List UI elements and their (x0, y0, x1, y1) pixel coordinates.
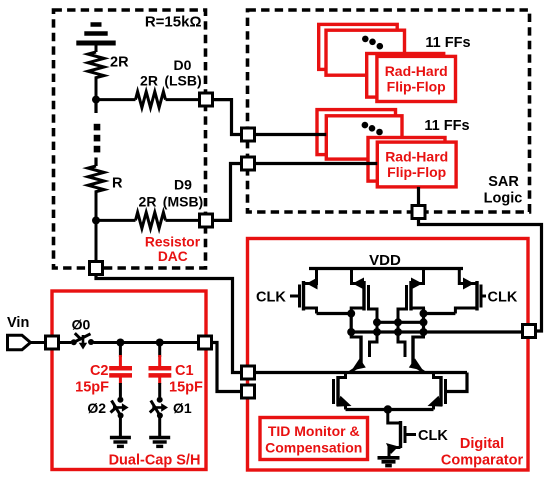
switch phi0 (71, 333, 94, 349)
wire comparator input rail (node A tap) (255, 371, 467, 374)
svg-text:2R: 2R (140, 73, 158, 89)
capacitor C1 (149, 343, 172, 398)
svg-text:Vin: Vin (7, 315, 29, 331)
resistor R (vertical) (88, 166, 104, 194)
svg-text:R: R (112, 176, 123, 192)
transistor P4 (PMOS reset right, CLK) (455, 269, 486, 314)
svg-text:CLK: CLK (418, 428, 448, 444)
node square SAR input 1 (242, 128, 255, 141)
svg-text:(LSB): (LSB) (164, 73, 201, 89)
switch phi2 (111, 397, 129, 419)
svg-text:Digital: Digital (460, 436, 504, 452)
svg-text:2R: 2R (139, 194, 157, 210)
resistor 2R (D0 row horizontal) (136, 92, 166, 108)
wire SAR out square to comparator output square (right loop) (419, 219, 542, 332)
svg-text:11 FFs: 11 FFs (424, 118, 469, 134)
wire phi1 to ground (158, 416, 161, 438)
node dot C1 top (156, 339, 164, 347)
FF stack2 back rect 2 (326, 116, 402, 159)
wire feedback loop to N4 gate (446, 373, 468, 392)
node square D9 (200, 214, 213, 227)
box SAR Logic (dashed) (248, 10, 530, 212)
FF stack1 back rect 2 (326, 30, 405, 75)
svg-text:(MSB): (MSB) (163, 194, 203, 210)
node square SAR output (412, 206, 425, 219)
input pad Vin (pentagon) (8, 335, 31, 350)
svg-text:CLK: CLK (256, 290, 286, 306)
svg-text:DAC: DAC (158, 249, 188, 264)
wire D9 square to SAR input 2 (213, 164, 242, 221)
svg-text:Flip-Flop: Flip-Flop (387, 164, 446, 180)
wire cross-couple (node B to gate line A) (377, 321, 424, 324)
transistor N4 (diff pair right) (434, 373, 446, 410)
resistor 2R (D9 row horizontal) (136, 212, 166, 228)
svg-text:Comparator: Comparator (441, 453, 524, 469)
wire top plate rail (94, 341, 199, 344)
svg-text:Ø1: Ø1 (173, 400, 192, 416)
FF stack2 front rect Rad-Hard Flip-Flop (377, 142, 456, 187)
transistor N1 (NMOS latch left) (350, 332, 361, 372)
svg-text:Resistor: Resistor (145, 235, 201, 250)
svg-text:15pF: 15pF (169, 380, 203, 396)
svg-text:Ø0: Ø0 (72, 317, 91, 333)
svg-text:Flip-Flop: Flip-Flop (387, 79, 446, 95)
node square DAC output (90, 262, 103, 275)
node square D0 (200, 93, 213, 106)
resistor 2R (vertical top) (88, 52, 104, 79)
wire right drain rail (424, 312, 456, 315)
wire SAR input1 square to FF stack2 (255, 133, 326, 136)
box Digital Comparator (red) (248, 239, 529, 471)
FF stack1 front rect Rad-Hard Flip-Flop (377, 56, 456, 101)
svg-text:2R: 2R (110, 55, 129, 71)
node dot D0 row (92, 96, 100, 104)
ground (comparator tail) (378, 458, 400, 466)
switch phi1 (150, 397, 168, 419)
capacitor C2 (109, 343, 132, 398)
FF stack2 back rect 3 (368, 138, 445, 182)
wire tail rail (346, 408, 434, 411)
transistor N5 (tail NMOS, CLK) (388, 410, 416, 457)
node square SAR input 2 (242, 157, 255, 170)
wire D9 row left segment (96, 219, 136, 222)
node square comparator output (523, 325, 536, 338)
wire left drain rail (317, 312, 352, 315)
wire SAR input2 square to FF stack2 front (255, 162, 377, 165)
svg-text:R=15kΩ: R=15kΩ (145, 14, 202, 31)
wire R to node D9 row (95, 194, 98, 222)
svg-text:C2: C2 (90, 363, 109, 379)
wire input square to switch (59, 341, 72, 344)
transistor P3 (PMOS latch right) (398, 269, 424, 358)
box Dual-Cap S/H (red) (52, 291, 206, 470)
svg-text:Rad-Hard: Rad-Hard (385, 149, 448, 165)
wire cross-couple / output (node A to gate line B and output square) (351, 330, 522, 333)
FF stack1 ellipsis dots (362, 36, 369, 43)
flip-flop stack 2 (bottom, 11 FFs) (317, 110, 456, 187)
ellipsis dots (rail continuation) (94, 124, 101, 131)
wire S/H output square to comparator input 2 (212, 343, 242, 392)
wire D0 square to SAR input 1 (213, 100, 242, 135)
ground (C1 branch) (149, 438, 170, 447)
svg-text:Rad-Hard: Rad-Hard (385, 63, 448, 79)
node square S/H output (199, 336, 212, 349)
wire rail stub above R (94, 158, 97, 167)
svg-text:Dual-Cap S/H: Dual-Cap S/H (109, 453, 201, 469)
svg-text:Ø2: Ø2 (87, 400, 106, 416)
transistor P1 (PMOS reset left, CLK) (290, 269, 317, 314)
svg-text:11 FFs: 11 FFs (425, 35, 470, 51)
svg-text:Compensation: Compensation (265, 440, 362, 456)
svg-text:Logic: Logic (484, 191, 523, 207)
transistor N3 (diff pair left) (334, 373, 346, 410)
svg-text:SAR: SAR (488, 174, 519, 190)
node dot C2 top (116, 339, 124, 347)
FF stack1 back rect 3 (367, 54, 444, 98)
svg-text:D0: D0 (174, 57, 192, 73)
transistor P2 (PMOS latch left) (351, 269, 377, 358)
wire rail stub below node (94, 100, 97, 113)
wire 2R to node D0row (95, 79, 98, 101)
node square comparator input 2 (242, 385, 255, 398)
wire pad to input square (31, 341, 46, 344)
transistor N2 (NMOS latch right) (413, 332, 424, 372)
svg-text:D9: D9 (174, 177, 192, 193)
box Resistor DAC (dashed) (54, 10, 206, 268)
node B (right output column) (422, 308, 425, 332)
svg-text:CLK: CLK (488, 290, 518, 306)
wire VDD rail (309, 267, 463, 270)
wire 2R to D0 square (166, 98, 200, 101)
FF stack1 back rect 1 (319, 24, 398, 69)
wire supply to 2R (95, 45, 98, 52)
FF stack2 ellipsis dots (362, 122, 369, 129)
node square comparator input 1 (242, 366, 255, 379)
wire FF stack2 output down to SAR out square (417, 187, 420, 206)
wire phi2 to ground (119, 416, 122, 438)
wire D9 node down to DAC output square (95, 220, 98, 262)
node dot D9 row (92, 216, 100, 224)
node tail (384, 405, 392, 413)
wire D0 row left segment (96, 98, 136, 101)
flip-flop stack 1 (top, 11 FFs) (319, 24, 456, 101)
svg-text:C1: C1 (175, 363, 194, 379)
FF stack2 back rect 1 (317, 110, 396, 155)
ground (C2 branch) (110, 438, 131, 447)
svg-text:15pF: 15pF (75, 380, 109, 396)
box TID Monitor & Compensation (260, 418, 368, 460)
wire DAC output square down/right to comparator input 1 (96, 275, 241, 373)
svg-text:TID Monitor &: TID Monitor & (268, 423, 360, 439)
wire 2R to D9 square (166, 219, 200, 222)
node square S/H input (46, 336, 59, 349)
node A (left output column) (350, 314, 353, 333)
svg-text:VDD: VDD (369, 252, 401, 269)
supply VREF symbol (inverted ground) (76, 25, 115, 44)
